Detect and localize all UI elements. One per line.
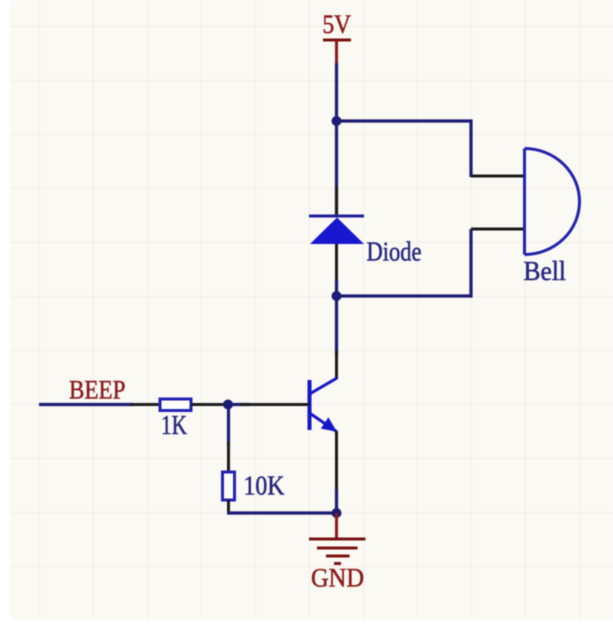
junction bottom (GND node) xyxy=(332,508,342,518)
svg-text:GND: GND xyxy=(311,564,364,593)
transistor emitter diagonal xyxy=(310,413,337,432)
wire anode to mid junction xyxy=(335,280,338,297)
power port 5V xyxy=(323,10,352,64)
resistor R2 10K bottom pin xyxy=(227,500,230,513)
diode cathode pin (pin 1) xyxy=(335,186,338,216)
resistor R1 1K body xyxy=(160,399,191,411)
svg-text:Diode: Diode xyxy=(367,237,422,267)
diode D1 triangle xyxy=(310,218,364,245)
bell top pin xyxy=(471,175,524,178)
wire bell bottom corner to mid junction xyxy=(337,229,472,296)
transistor base pin xyxy=(240,403,310,406)
junction mid (diode anode node) xyxy=(332,291,342,301)
svg-text:Bell: Bell xyxy=(524,256,567,286)
transistor emitter arrow xyxy=(321,417,337,432)
bell bottom pin xyxy=(471,228,524,231)
svg-text:1K: 1K xyxy=(161,410,187,440)
transistor collector pin xyxy=(335,350,338,379)
svg-text:5V: 5V xyxy=(323,10,352,39)
transistor emitter pin xyxy=(335,431,338,492)
junction top xyxy=(332,116,342,126)
wire base junction to base pin xyxy=(228,403,250,406)
wire top junction to bell top corner xyxy=(337,121,472,177)
transistor Q1 xyxy=(310,378,338,432)
resistor R2 10K top pin xyxy=(227,442,230,472)
resistor R1 1K right pin xyxy=(191,403,228,406)
wire 5V stub to top junction xyxy=(335,63,338,122)
svg-text:BEEP: BEEP xyxy=(69,376,126,405)
wire mid junction to collector xyxy=(335,296,338,355)
wire emitter to bottom junction xyxy=(335,490,338,513)
junction base node xyxy=(223,400,233,410)
ground stub xyxy=(335,513,338,539)
resistor R1 1K left pin xyxy=(130,403,160,406)
wire 10K to bottom junction xyxy=(227,511,337,514)
svg-text:10K: 10K xyxy=(244,471,285,501)
wire base node down to 10K xyxy=(227,405,230,447)
resistor R2 10K body xyxy=(223,472,235,500)
diode anode pin (pin 2) xyxy=(335,243,338,296)
transistor base bar xyxy=(308,380,312,430)
wire diode to top junction xyxy=(335,121,338,216)
diode D1 cathode bar xyxy=(309,215,364,218)
bell LS1 body xyxy=(525,149,580,255)
wire BEEP input xyxy=(39,403,133,406)
ground symbol GND xyxy=(309,539,366,564)
transistor collector diagonal xyxy=(310,378,338,394)
